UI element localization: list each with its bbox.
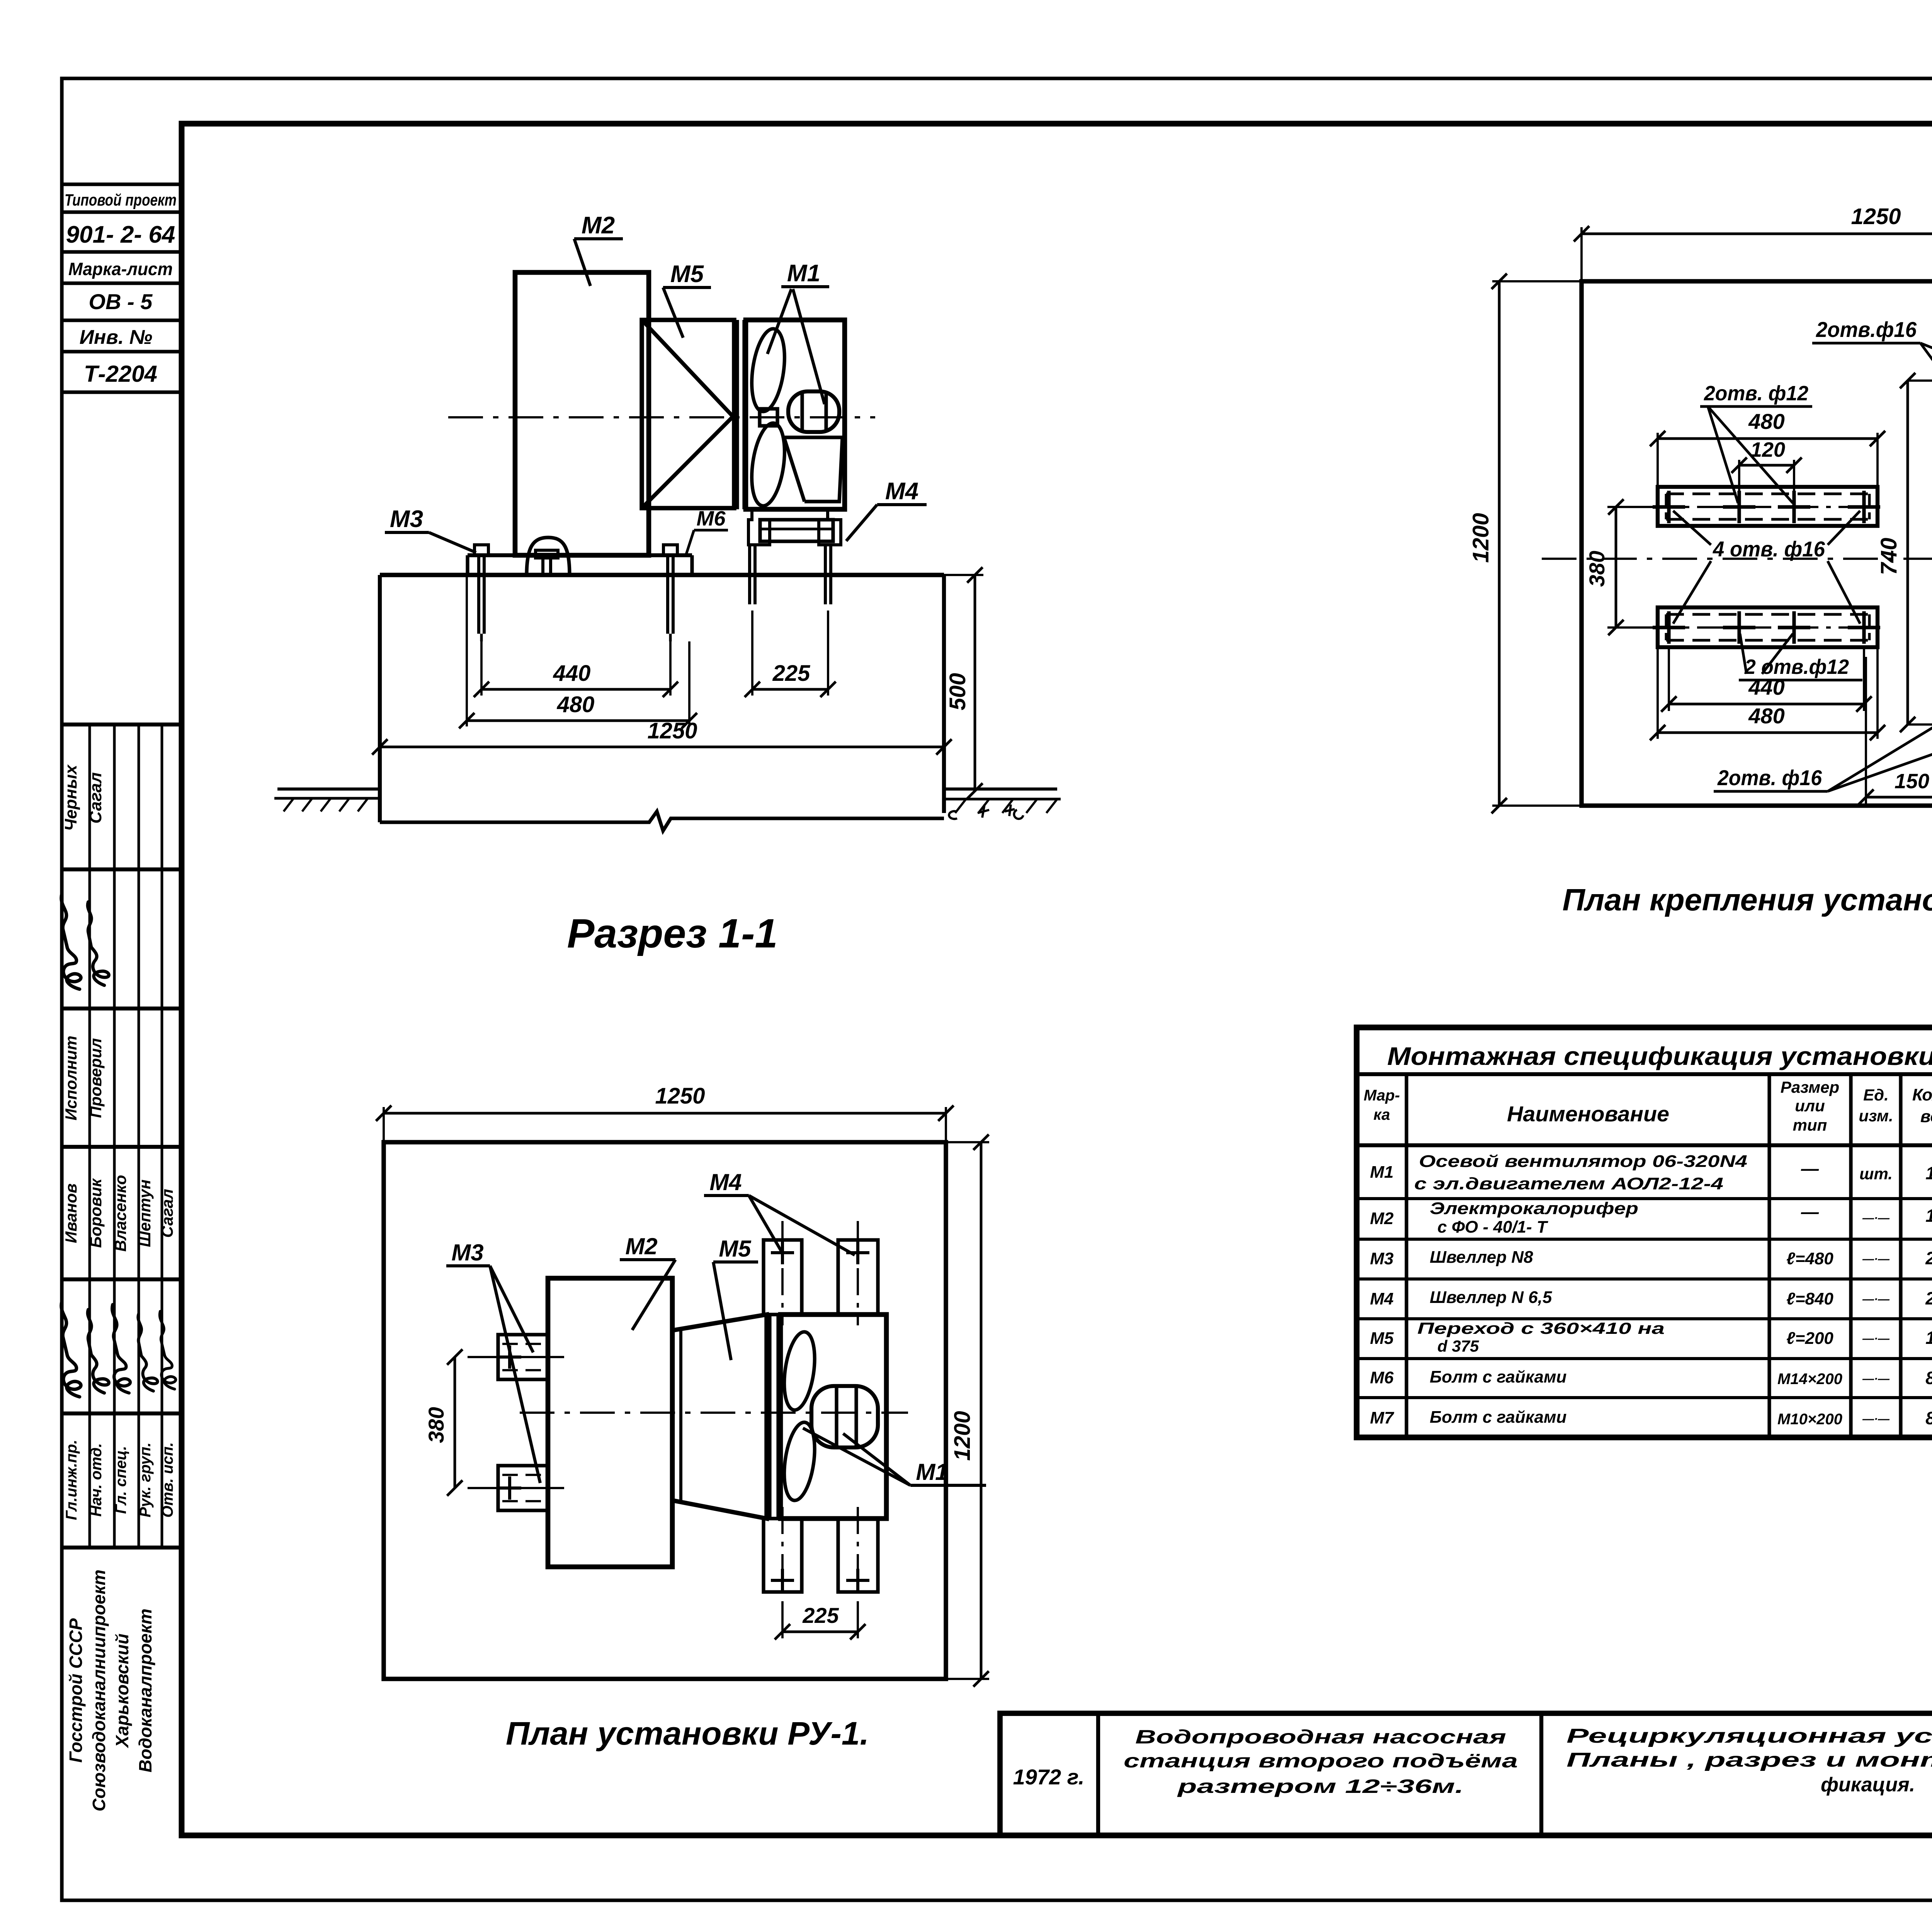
svg-text:изм.: изм. (1859, 1107, 1893, 1125)
channel M3 base bar (468, 553, 692, 557)
svg-text:М10×200: М10×200 (1777, 1411, 1842, 1428)
svg-text:М1: М1 (1370, 1163, 1393, 1182)
svg-text:1: 1 (1925, 1328, 1932, 1348)
fan support bracket right (819, 509, 841, 545)
channel M4 side view (760, 520, 833, 541)
svg-text:Наименование: Наименование (1507, 1102, 1669, 1126)
svg-text:М3: М3 (1370, 1249, 1393, 1268)
svg-text:2: 2 (1925, 1248, 1932, 1268)
mounting plan centerline (1542, 558, 1932, 560)
upper bar holes (1653, 505, 1685, 509)
svg-text:d 375: d 375 (1437, 1337, 1479, 1355)
signature squiggle 4 (88, 1310, 109, 1393)
anchor bolt right shaft (666, 555, 669, 634)
svg-text:2: 2 (1925, 1288, 1932, 1308)
J-bolt right under fan (824, 545, 827, 604)
dimension 500 (section) (944, 574, 983, 576)
channel M4 upper-left (plan) (764, 1240, 802, 1315)
svg-text:Водоканалпроект: Водоканалпроект (135, 1609, 155, 1772)
channel M4 upper-right (plan) (838, 1240, 878, 1315)
svg-text:1250: 1250 (647, 718, 697, 743)
section centerline (448, 416, 875, 418)
signature table row dividers (vertical strips) (88, 724, 91, 1548)
anchor bolt left head (474, 545, 488, 555)
svg-text:Отв. исп.: Отв. исп. (159, 1442, 176, 1517)
installation plan boundary square (384, 1142, 946, 1679)
svg-text:разтером 12÷36м.: разтером 12÷36м. (1177, 1776, 1464, 1797)
signature table frame lines (62, 723, 182, 726)
svg-text:Разрез 1-1: Разрез 1-1 (567, 911, 778, 956)
dimension 440 (section) (480, 641, 483, 696)
svg-text:1250: 1250 (655, 1083, 705, 1109)
svg-text:—·—: —·— (1862, 1253, 1890, 1265)
svg-text:М14×200: М14×200 (1777, 1371, 1842, 1388)
svg-text:Проверил: Проверил (87, 1038, 105, 1118)
svg-text:с эл.двигателем АОЛ2-12-4: с эл.двигателем АОЛ2-12-4 (1414, 1174, 1723, 1193)
svg-text:М5: М5 (1370, 1329, 1394, 1348)
lower channel bar (plan) (1658, 607, 1878, 647)
svg-text:Марка-лист: Марка-лист (68, 259, 173, 279)
svg-text:тип: тип (1793, 1116, 1827, 1134)
svg-text:ℓ=480: ℓ=480 (1786, 1249, 1833, 1268)
svg-text:Боровик: Боровик (87, 1178, 105, 1248)
svg-text:1: 1 (1925, 1163, 1932, 1183)
svg-text:Исполнит: Исполнит (62, 1036, 80, 1120)
lower bar holes (1653, 626, 1685, 629)
svg-text:Сагал: Сагал (86, 772, 105, 824)
svg-text:Переход с 360×410 на: Переход с 360×410 на (1417, 1319, 1665, 1337)
svg-text:2отв. ф16: 2отв. ф16 (1717, 765, 1822, 790)
svg-text:М3: М3 (451, 1240, 483, 1265)
svg-text:М3: М3 (390, 506, 423, 532)
svg-text:М7: М7 (1370, 1408, 1395, 1427)
svg-text:М4: М4 (1370, 1289, 1393, 1308)
svg-text:1972 г.: 1972 г. (1013, 1765, 1085, 1789)
svg-text:М4: М4 (709, 1169, 742, 1195)
svg-text:Болт с гайками: Болт с гайками (1430, 1367, 1567, 1386)
signature squiggle 1 (61, 894, 81, 989)
signature squiggle 5 (112, 1304, 130, 1393)
svg-text:Электрокалорифер: Электрокалорифер (1430, 1199, 1638, 1218)
svg-text:Осевой вентилятор 06-320N4: Осевой вентилятор 06-320N4 (1419, 1152, 1747, 1171)
specification table outer frame (1357, 1027, 1932, 1437)
svg-text:440: 440 (1748, 675, 1784, 699)
svg-text:440: 440 (553, 661, 591, 686)
fan hub (760, 409, 777, 426)
spec table row lines (1357, 1197, 1932, 1200)
svg-text:М1: М1 (916, 1459, 948, 1485)
signature squiggle 6 (138, 1314, 158, 1391)
svg-text:Союзводоканалниипроект: Союзводоканалниипроект (89, 1570, 109, 1811)
dimension 380 (installation plan) (454, 1357, 456, 1488)
fan housing (plan) (781, 1315, 886, 1519)
svg-text:380: 380 (424, 1407, 448, 1443)
svg-text:Гл.инж.пр.: Гл.инж.пр. (63, 1440, 80, 1520)
svg-text:2отв.ф16: 2отв.ф16 (1816, 317, 1917, 342)
upper channel bar (plan) (1658, 487, 1878, 526)
M5 brace diagonal lower (643, 417, 733, 507)
svg-text:Типовой проект: Типовой проект (65, 191, 177, 209)
svg-text:901- 2- 64: 901- 2- 64 (66, 221, 175, 248)
hump terminal box (536, 550, 558, 558)
svg-text:во: во (1920, 1107, 1932, 1126)
dimension 1200 (mounting plan) (1492, 280, 1582, 282)
J-bolt left under fan (748, 545, 751, 604)
svg-text:М2: М2 (582, 212, 615, 239)
svg-text:8: 8 (1925, 1368, 1932, 1388)
svg-text:740: 740 (1876, 538, 1901, 575)
svg-text:150: 150 (1895, 770, 1929, 793)
svg-text:Размер: Размер (1781, 1078, 1839, 1096)
svg-text:—·—: —·— (1862, 1372, 1890, 1385)
spec table column lines (1405, 1074, 1408, 1437)
svg-text:Госстрой СССР: Госстрой СССР (66, 1618, 86, 1763)
svg-text:1200: 1200 (950, 1411, 975, 1461)
M5 brace diagonal upper (643, 321, 733, 417)
svg-text:—·—: —·— (1862, 1293, 1890, 1306)
svg-text:ОВ - 5: ОВ - 5 (89, 289, 153, 314)
dimension 1250 (mounting plan) (1580, 227, 1583, 281)
dimension 1200 (installation plan) (946, 1141, 989, 1143)
heater box M2 (515, 272, 649, 555)
svg-text:120: 120 (1750, 438, 1785, 461)
svg-text:Планы , разрез и монтажная: Планы , разрез и монтажная специ- (1566, 1749, 1932, 1771)
fan blades (plan) (780, 1330, 819, 1412)
left stamp box: 901-2-64 (62, 250, 182, 253)
cable gland hump on base (527, 537, 570, 575)
svg-text:—: — (1801, 1158, 1819, 1179)
svg-text:225: 225 (772, 661, 811, 686)
svg-text:225: 225 (802, 1603, 839, 1628)
svg-text:Болт с гайками: Болт с гайками (1430, 1408, 1567, 1427)
svg-text:—·—: —·— (1862, 1332, 1890, 1345)
svg-text:Т-2204: Т-2204 (84, 361, 157, 387)
left stamp box: T-2204 (62, 390, 182, 394)
dimension 1250 (installation plan) (383, 1107, 385, 1142)
svg-text:ℓ=840: ℓ=840 (1786, 1289, 1833, 1308)
svg-text:Власенко: Власенко (111, 1175, 129, 1252)
fan blade upper lobe (747, 327, 789, 413)
svg-text:—·—: —·— (1862, 1413, 1890, 1425)
installation plan centerline (520, 1412, 908, 1414)
svg-text:Швеллер N8: Швеллер N8 (1430, 1248, 1533, 1267)
svg-text:или: или (1795, 1097, 1825, 1115)
svg-text:Мар-: Мар- (1364, 1087, 1400, 1104)
left stamp box: OV-5 (62, 318, 182, 322)
dimension 120 (mounting plan) (1738, 460, 1740, 500)
svg-text:—: — (1801, 1202, 1819, 1222)
dimension 480 top (mounting plan) (1656, 433, 1659, 487)
svg-text:480: 480 (1748, 409, 1784, 434)
dimension 480 (section) (466, 575, 468, 726)
channel M4 lower-right (plan) (838, 1519, 878, 1592)
svg-text:Ед.: Ед. (1863, 1086, 1889, 1104)
dimension 480 bottom (mounting plan) (1656, 647, 1659, 739)
svg-text:М6: М6 (1370, 1368, 1394, 1387)
svg-text:Рук. груп.: Рук. груп. (137, 1442, 154, 1517)
svg-text:фикация.: фикация. (1821, 1774, 1915, 1796)
svg-text:М2: М2 (1370, 1209, 1394, 1228)
svg-text:М1: М1 (787, 260, 820, 287)
svg-text:8: 8 (1925, 1408, 1932, 1428)
svg-text:1: 1 (1925, 1206, 1932, 1226)
svg-text:План крепления установки: План крепления установки РУ-1. (1563, 883, 1932, 917)
left stamp box: Marka-list label (62, 281, 182, 285)
fan blade lower lobe (747, 421, 789, 508)
svg-text:М5: М5 (670, 261, 704, 287)
dimension 740 (mounting plan) (1906, 381, 1909, 724)
fan support bracket left (748, 509, 770, 545)
channel stub M3 lower (498, 1466, 548, 1510)
svg-text:Монтажная спецификация уст: Монтажная спецификация установки РУ-1 (1387, 1042, 1932, 1070)
motor body (788, 391, 839, 432)
svg-text:Инв. №: Инв. № (80, 326, 153, 349)
floor line right (944, 787, 1057, 791)
svg-text:480: 480 (557, 692, 595, 717)
title block frame (1000, 1713, 1932, 1835)
svg-text:ℓ=200: ℓ=200 (1786, 1329, 1833, 1348)
svg-text:Рециркуляционная установка Р: Рециркуляционная установка РУ-1. (1566, 1725, 1932, 1747)
svg-text:Черных: Черных (61, 764, 80, 831)
dimension 150-225 bottom (mounting plan) (1865, 657, 1867, 804)
svg-text:шт.: шт. (1859, 1165, 1893, 1183)
anchor bolt right head (663, 545, 677, 555)
dimension 225 (installation plan) (781, 1611, 784, 1638)
fan casing M1 box (746, 320, 845, 509)
svg-text:М5: М5 (719, 1236, 752, 1262)
left stamp box: Tipovoy proekt label (62, 182, 182, 186)
svg-text:Нач. отд.: Нач. отд. (88, 1443, 105, 1517)
svg-text:480: 480 (1748, 704, 1784, 728)
left stamp box: Inv. No (62, 350, 182, 353)
svg-text:500: 500 (945, 673, 970, 711)
motor mount trapezoid (784, 437, 842, 502)
dimension 440 (mounting plan) (1668, 647, 1670, 711)
svg-text:План установки РУ-1.: План установки РУ-1. (506, 1715, 869, 1752)
floor line left (277, 787, 380, 791)
svg-text:станция второго подъёма: станция второго подъёма (1124, 1750, 1518, 1772)
dimension 1250 (section) (380, 746, 944, 748)
svg-text:Кол-: Кол- (1912, 1085, 1932, 1104)
svg-text:—·—: —·— (1862, 1212, 1890, 1225)
svg-text:ка: ка (1373, 1106, 1390, 1123)
flange between M5 and fan (735, 320, 739, 509)
svg-text:2 отв.ф12: 2 отв.ф12 (1744, 655, 1849, 679)
spec table title row (1357, 1072, 1932, 1076)
anchor bolt left shaft (477, 555, 480, 634)
svg-text:2отв. ф12: 2отв. ф12 (1704, 382, 1808, 405)
svg-text:М2: М2 (625, 1233, 657, 1259)
channel M4 lower-left (plan) (764, 1519, 802, 1592)
foundation block (380, 573, 944, 577)
svg-text:с ФО - 40/1- Т: с ФО - 40/1- Т (1437, 1218, 1548, 1236)
channel stub M3 upper (498, 1335, 548, 1379)
heater M2 (plan) (548, 1278, 672, 1567)
svg-text:Шептун: Шептун (136, 1179, 154, 1247)
signature squiggle 3 (61, 1301, 81, 1397)
svg-text:Иванов: Иванов (62, 1184, 80, 1243)
signature squiggle 2 (88, 902, 109, 985)
svg-text:Швеллер N 6,5: Швеллер N 6,5 (1430, 1288, 1552, 1307)
title block vertical dividers (1096, 1713, 1100, 1835)
svg-text:4 отв. ф16: 4 отв. ф16 (1713, 537, 1825, 561)
transition M5 (plan) (672, 1315, 767, 1519)
svg-text:1250: 1250 (1851, 204, 1901, 229)
dimension 225 (section) (751, 611, 753, 696)
svg-text:М4: М4 (885, 478, 918, 505)
signature squiggle 7 (160, 1311, 175, 1389)
svg-text:Харьковский: Харьковский (112, 1634, 132, 1749)
svg-text:1200: 1200 (1468, 513, 1493, 563)
motor shell lines (800, 391, 804, 432)
mounting plan boundary rect (1582, 281, 1932, 806)
dimension 380 (mounting plan) (1607, 506, 1658, 508)
spec table header row (1357, 1143, 1932, 1147)
svg-text:380: 380 (1585, 551, 1609, 587)
svg-text:Гл. спец.: Гл. спец. (112, 1446, 129, 1514)
flange at fan (plan) (768, 1315, 771, 1519)
svg-text:Водопроводная насосная: Водопроводная насосная (1135, 1726, 1506, 1748)
motor (plan) (811, 1386, 878, 1447)
svg-text:Сагал: Сагал (158, 1189, 176, 1238)
transition M5 box (642, 320, 734, 508)
svg-text:М6: М6 (696, 507, 726, 530)
